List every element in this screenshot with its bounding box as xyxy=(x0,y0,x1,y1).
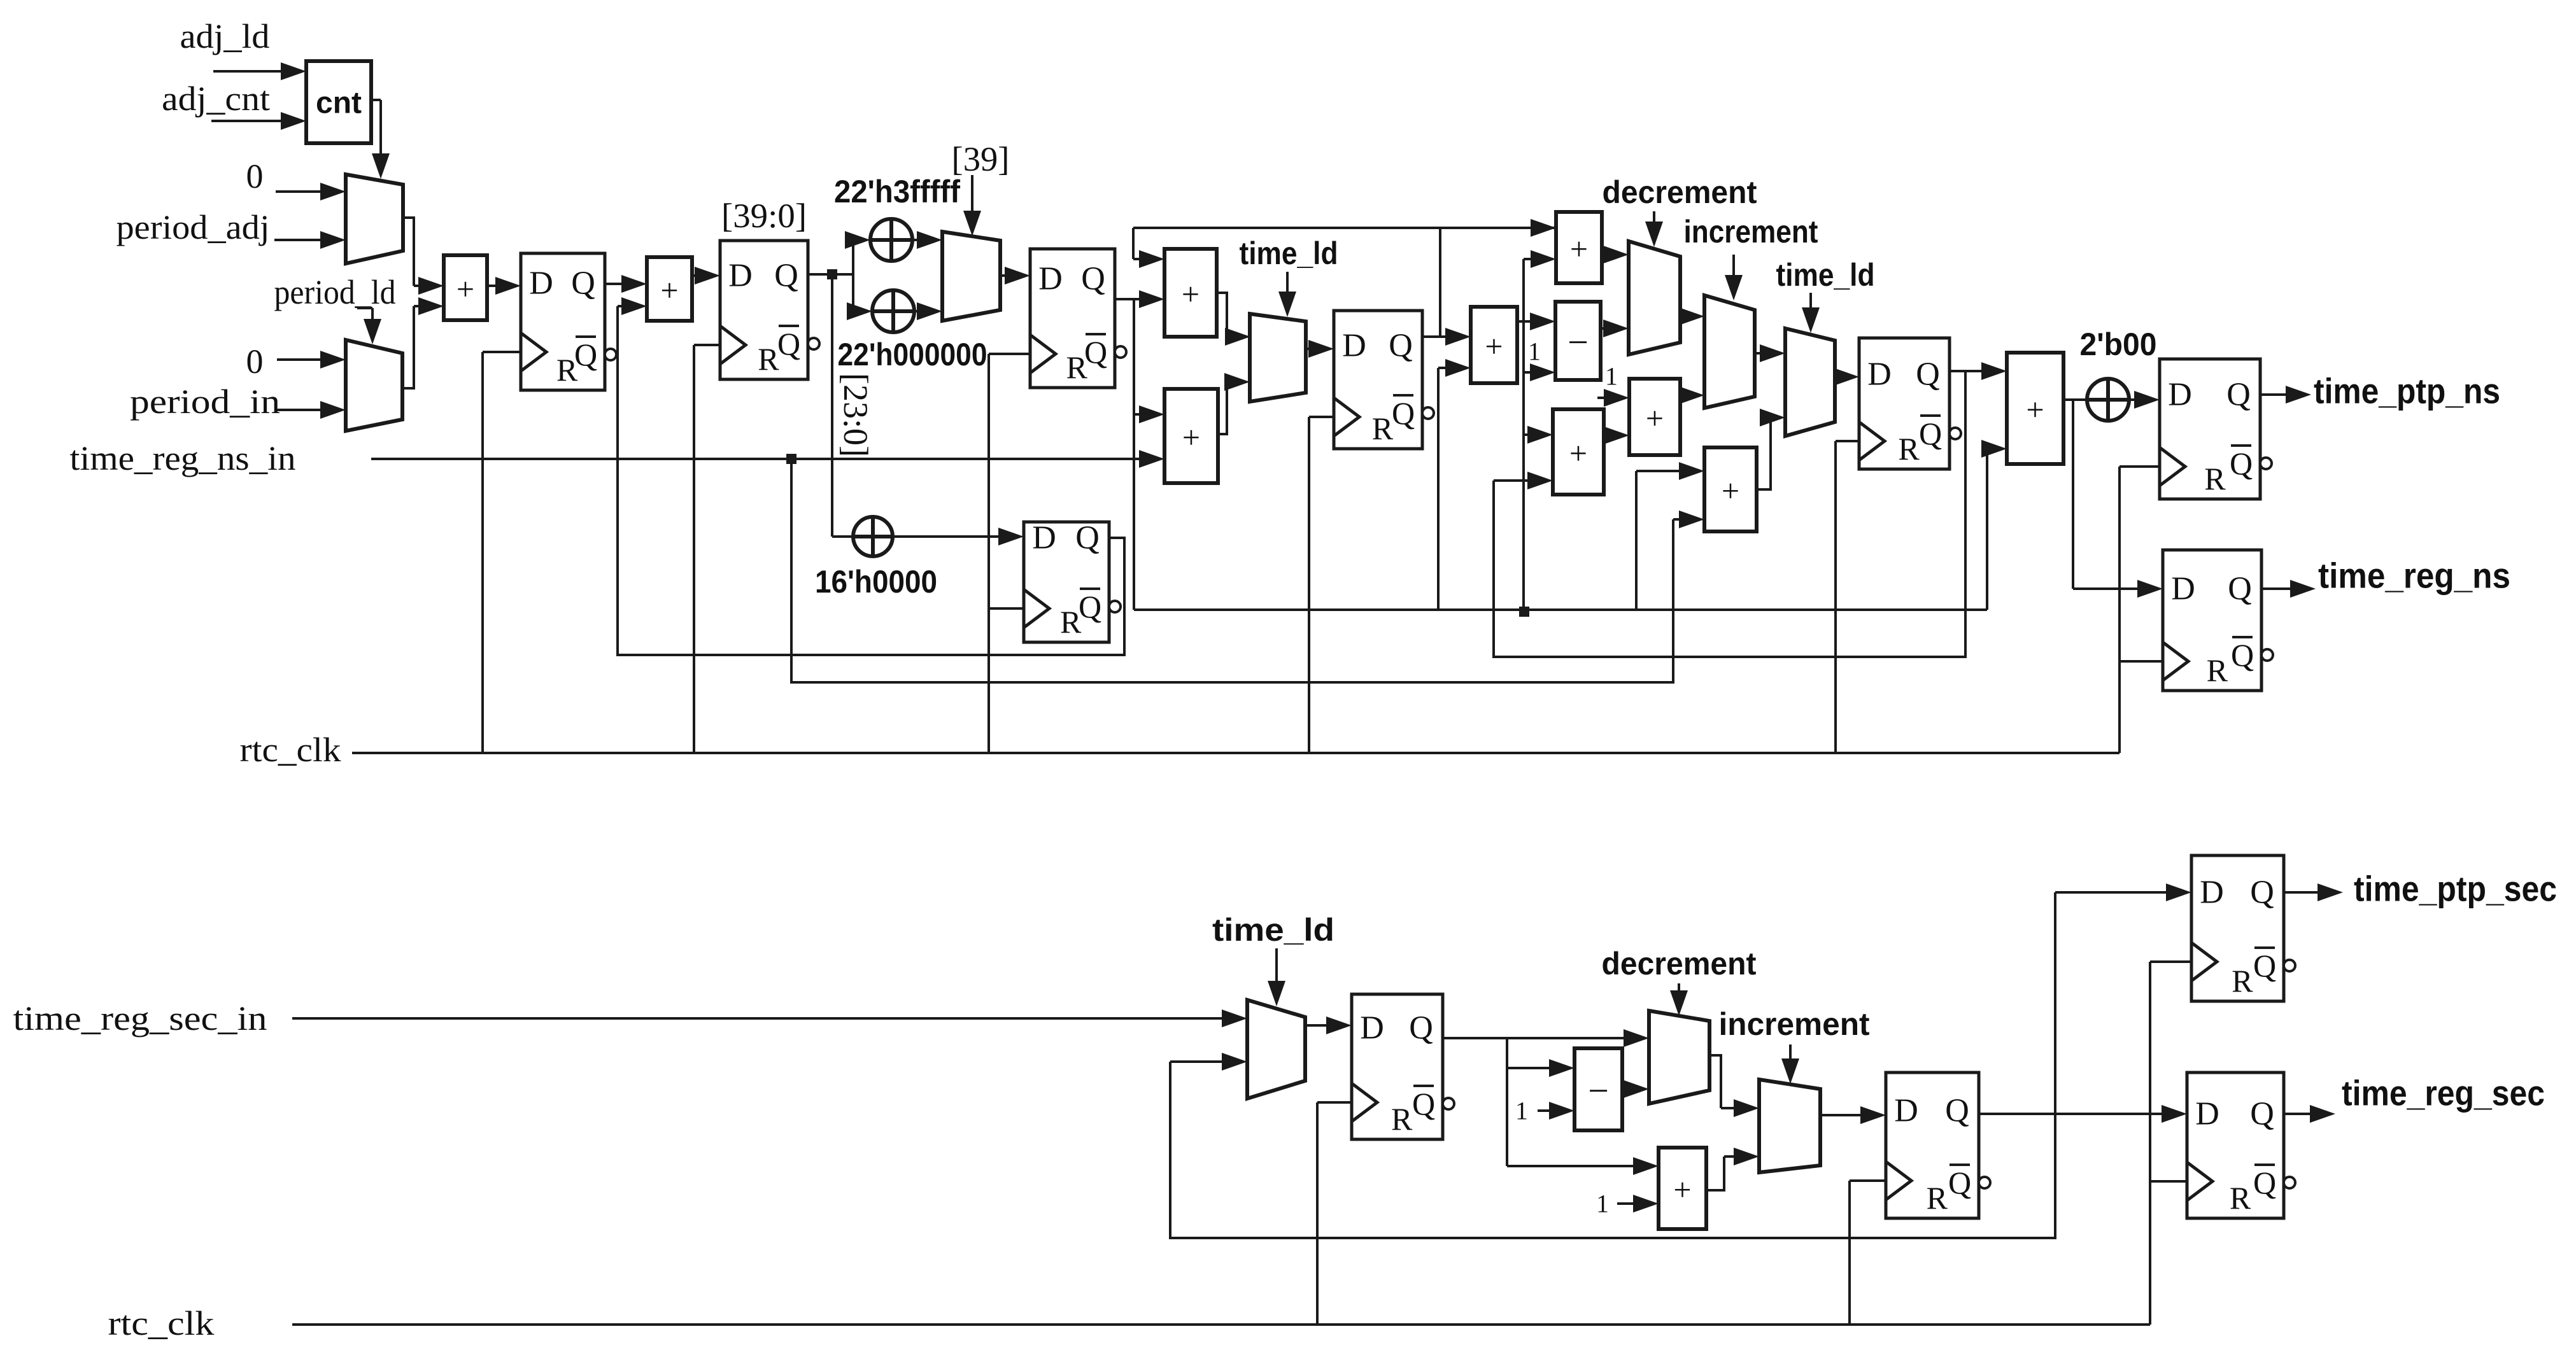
svg-text:Q: Q xyxy=(2231,637,2254,673)
wire mux M2 output to adder A1 xyxy=(402,306,414,388)
wire adj_ld into cnt xyxy=(213,70,286,73)
svg-text:Q: Q xyxy=(1081,261,1105,297)
svg-text:time_reg_sec_in: time_reg_sec_in xyxy=(13,999,267,1037)
svg-text:D: D xyxy=(1867,356,1892,393)
svg-text:D: D xyxy=(529,265,553,302)
svg-text:Q: Q xyxy=(1079,589,1101,624)
wire DFF3 Q net to adder A9 xyxy=(1635,471,1638,610)
svg-text:+: + xyxy=(1673,1172,1691,1207)
wire cnt output to mux M1 select xyxy=(371,99,381,101)
wire DFF3 Q fanout xyxy=(1115,298,1134,300)
wire DFF_S3 Q output xyxy=(2284,891,2323,894)
mux M6 (increment select) xyxy=(1704,295,1755,408)
svg-text:R: R xyxy=(2232,963,2253,999)
svg-text:Q: Q xyxy=(1948,1165,1971,1200)
wire XOR X1 to mux M3 xyxy=(912,239,922,241)
mux M7 (time_ld select) xyxy=(1785,328,1835,436)
wire constant 1 to adder A7 xyxy=(1597,397,1609,399)
svg-text:Q: Q xyxy=(2253,948,2276,983)
wire DFF7 Q output xyxy=(2260,393,2291,396)
wire period_ld to mux M2 select xyxy=(357,307,372,309)
wire adder A10 out to DFF8 D xyxy=(2072,400,2074,589)
svg-text:+: + xyxy=(1182,276,1200,312)
svg-text:Q: Q xyxy=(1916,356,1940,393)
svg-text:adj_cnt: adj_cnt xyxy=(162,80,270,118)
svg-text:D: D xyxy=(1360,1010,1384,1046)
adder A3 xyxy=(1164,249,1217,337)
svg-text:R: R xyxy=(2207,652,2228,688)
wire time_reg_ns_in to adder A4 xyxy=(371,458,1144,460)
svg-text:rtc_clk: rtc_clk xyxy=(108,1304,215,1342)
svg-text:R: R xyxy=(2230,1180,2251,1216)
wire DFF5 Q to adder A5 and top line xyxy=(1422,335,1450,338)
flip-flop DFF4 (fraction register) xyxy=(1024,522,1109,642)
svg-text:D: D xyxy=(728,258,753,294)
svg-text:period_in: period_in xyxy=(130,383,280,421)
svg-text:D: D xyxy=(2195,1096,2219,1132)
svg-text:D: D xyxy=(2168,377,2192,413)
svg-text:time_ptp_sec: time_ptp_sec xyxy=(2354,869,2557,909)
XOR gate X2 xyxy=(872,290,914,332)
svg-text:Q: Q xyxy=(2226,377,2251,413)
svg-text:+: + xyxy=(456,271,474,307)
svg-text:time_ptp_ns: time_ptp_ns xyxy=(2314,371,2500,411)
wire time_ld to mux M7 select xyxy=(1809,293,1812,313)
flip-flop DFF5 (ns counter) xyxy=(1334,311,1422,449)
svg-text:time_ld: time_ld xyxy=(1776,257,1875,293)
svg-text:Q: Q xyxy=(571,265,595,302)
subtractor S2 xyxy=(1575,1048,1622,1130)
svg-text:R: R xyxy=(758,341,779,377)
flip-flop DFF2 (accumulator [39:0]) xyxy=(720,241,808,379)
wire DFF8 Q output xyxy=(2261,587,2295,590)
svg-text:+: + xyxy=(660,272,678,308)
svg-text:−: − xyxy=(1588,1070,1609,1111)
svg-text:R: R xyxy=(2204,461,2226,496)
flip-flop DFF6 (time_reg_ns counter) xyxy=(1859,338,1950,469)
wire XOR X4 to DFF4 D xyxy=(893,535,1003,538)
svg-text:+: + xyxy=(1646,400,1664,436)
wire time_reg_sec_in to mux M8 xyxy=(292,1017,1227,1020)
svg-text:Q: Q xyxy=(574,337,597,372)
wire time_ld to mux M4 select xyxy=(1286,272,1289,297)
svg-text:Q: Q xyxy=(2250,1096,2274,1132)
wire adder A6 to mux M5 xyxy=(1602,253,1608,256)
svg-text:+: + xyxy=(1182,419,1200,455)
XOR gate X5 xyxy=(2087,379,2129,421)
svg-text:D: D xyxy=(2200,875,2224,911)
flip-flop DFF_S1 (sec counter) xyxy=(1352,994,1443,1139)
wire mux M6 to mux M7 xyxy=(1755,352,1765,355)
wire XOR X2 to mux M3 xyxy=(914,310,922,313)
wire 0 into mux M2 xyxy=(277,358,325,361)
mux M9 (decrement select) xyxy=(1649,1011,1709,1104)
wire XOR X5 to DFF7 D xyxy=(2129,398,2139,401)
svg-text:Q: Q xyxy=(2253,1165,2276,1200)
wire decrement to mux M5 select xyxy=(1653,211,1655,227)
svg-text:0: 0 xyxy=(246,342,264,381)
wire DFF3 Q net vertical to A6/S1/A7 xyxy=(1522,259,1525,612)
wire period_in into mux M2 xyxy=(277,409,325,411)
mux M8 (time_ld select) xyxy=(1247,1000,1305,1099)
svg-text:1: 1 xyxy=(1596,1190,1609,1218)
svg-text:Q: Q xyxy=(2228,571,2252,607)
wire decrement to mux M9 select xyxy=(1678,983,1680,995)
mux M1 (period_adj select) xyxy=(346,174,403,264)
svg-text:Q: Q xyxy=(1919,416,1942,451)
wire 0 into mux M1 xyxy=(276,190,325,193)
wire rtc_clk distribution (seconds) xyxy=(292,1323,2150,1326)
mux M4 (time_ld select) xyxy=(1250,314,1306,402)
svg-text:period_adj: period_adj xyxy=(117,208,270,246)
adder A1 xyxy=(444,255,487,320)
mux M3 (bit 39 select) xyxy=(942,232,1000,321)
svg-text:R: R xyxy=(1372,411,1394,446)
svg-text:Q: Q xyxy=(1412,1086,1435,1121)
svg-text:2'b00: 2'b00 xyxy=(2080,327,2157,362)
wire mux M10 to DFF_S2 D xyxy=(1820,1114,1865,1116)
wire mux M5 to mux M6 xyxy=(1680,315,1684,318)
flip-flop DFF1 (period register) xyxy=(521,253,605,390)
svg-text:−: − xyxy=(1568,321,1589,363)
svg-text:R: R xyxy=(1927,1180,1948,1216)
svg-text:1: 1 xyxy=(1515,1097,1528,1125)
svg-text:D: D xyxy=(2171,571,2195,607)
wire adder A10 to XOR X5 xyxy=(2063,398,2087,401)
wire DFF5 Q feedback top line xyxy=(1133,227,1556,229)
svg-text:16'h0000: 16'h0000 xyxy=(815,564,937,600)
adder A9 xyxy=(1704,447,1757,531)
flip-flop DFF7 (time_ptp_ns output) xyxy=(2160,359,2260,499)
wire time_reg_ns_in branch to adder A8 xyxy=(791,459,1673,682)
wire rtc_clk to DFF3 clock and DFF4 clock xyxy=(989,353,1030,355)
wire adder A1 to DFF1 D xyxy=(487,285,500,287)
wire rtc_clk to DFF1 clock xyxy=(483,351,521,353)
svg-text:time_reg_ns: time_reg_ns xyxy=(2318,556,2510,596)
svg-text:adj_ld: adj_ld xyxy=(180,17,270,55)
flip-flop DFF_S2 (sec register) xyxy=(1886,1072,1979,1218)
svg-text:Q: Q xyxy=(1084,334,1107,370)
adder A10 xyxy=(2007,353,2063,464)
svg-text:time_reg_ns_in: time_reg_ns_in xyxy=(70,439,296,477)
wire rtc_clk to DFF_S2 clock xyxy=(1850,1179,1886,1182)
counter block cnt xyxy=(306,61,371,143)
flip-flop DFF_S3 (time_ptp_sec output) xyxy=(2191,855,2284,1001)
svg-text:time_ld: time_ld xyxy=(1240,236,1338,271)
svg-text:decrement: decrement xyxy=(1602,946,1757,981)
junction time_reg_ns_in branch xyxy=(786,454,796,464)
adder A11 (+1) xyxy=(1659,1148,1706,1229)
svg-text:[39]: [39] xyxy=(952,140,1010,178)
wire adder A5 to subtractor S1 xyxy=(1517,320,1535,323)
adder A4 xyxy=(1164,389,1218,483)
svg-text:0: 0 xyxy=(246,157,264,195)
mux M10 (increment select) xyxy=(1759,1079,1820,1172)
svg-text:D: D xyxy=(1032,520,1056,556)
svg-text:+: + xyxy=(1569,435,1587,471)
wire adder A7 to mux M6 xyxy=(1680,394,1684,397)
adder A6 (top) xyxy=(1556,212,1602,283)
wire increment to mux M10 select xyxy=(1789,1044,1792,1064)
wire [39] to mux M3 select xyxy=(971,175,973,216)
svg-text:D: D xyxy=(1894,1093,1918,1129)
svg-text:Q: Q xyxy=(777,326,800,362)
wire rtc_clk to DFF2 clock xyxy=(694,344,720,346)
wire rtc_clk to DFF_S1 clock xyxy=(1317,1101,1352,1104)
junction DFF3 Q net xyxy=(1519,607,1529,617)
adder A2 (accumulator add) xyxy=(647,257,692,321)
wire mux M3 to DFF3 D xyxy=(1000,274,1010,277)
svg-text:+: + xyxy=(1722,473,1739,509)
adder A8 lower xyxy=(1553,409,1604,495)
flip-flop DFF_S4 (time_reg_sec output) xyxy=(2187,1072,2284,1218)
svg-text:decrement: decrement xyxy=(1603,174,1757,210)
svg-text:Q: Q xyxy=(2250,875,2274,911)
wire DFF3 Q net to adder A5 input 2 xyxy=(1437,368,1440,610)
wire rtc_clk to DFF6 clock xyxy=(1836,440,1859,442)
wire adder A2 to DFF2 D xyxy=(692,274,700,277)
wire adder A3 to mux M4 xyxy=(1217,293,1227,337)
svg-text:R: R xyxy=(1898,431,1920,467)
svg-text:D: D xyxy=(1342,328,1366,364)
svg-text:Q: Q xyxy=(1409,1010,1433,1046)
wire adder A8 to adder A7 xyxy=(1604,434,1609,437)
svg-text:Q: Q xyxy=(1075,520,1100,556)
wire DFF4 Q feedback to adder A2 xyxy=(618,306,1124,655)
subtractor S1 xyxy=(1555,302,1601,380)
wire rtc_clk distribution xyxy=(352,752,2120,754)
wire DFF_S2 Q to DFF_S3 D xyxy=(2054,892,2056,1114)
flip-flop DFF3 (ns accumulator) xyxy=(1030,249,1115,388)
svg-text:increment: increment xyxy=(1684,214,1818,250)
wire DFF_S1 Q fanout xyxy=(1443,1037,1629,1039)
wire subtractor S1 to mux M5 xyxy=(1601,327,1608,330)
wire adder A4 to mux M4 xyxy=(1218,382,1227,434)
svg-text:1: 1 xyxy=(1605,362,1618,391)
svg-text:period_ld: period_ld xyxy=(274,273,396,311)
wire increment to mux M6 select xyxy=(1732,255,1735,280)
wire rtc_clk to DFF5 clock xyxy=(1309,416,1334,418)
svg-text:+: + xyxy=(1485,328,1503,364)
mux M2 (period_in select) xyxy=(346,340,402,431)
svg-text:R: R xyxy=(1391,1101,1413,1137)
wire mux M7 to DFF6 D xyxy=(1835,376,1839,378)
svg-text:time_ld: time_ld xyxy=(1212,912,1334,948)
wire mux M8 to DFF_S1 D xyxy=(1305,1024,1331,1027)
wire DFF6 Q to adder A10 xyxy=(1950,370,1986,372)
svg-text:cnt: cnt xyxy=(316,87,362,120)
wire DFF1 Q to adder A2 xyxy=(605,283,626,285)
svg-text:1: 1 xyxy=(1528,337,1541,366)
wire time_ld to mux M8 select xyxy=(1275,948,1278,986)
junction DFF2 Q / [23:0] tap xyxy=(827,269,837,279)
svg-text:[39:0]: [39:0] xyxy=(721,197,807,235)
svg-text:Q: Q xyxy=(1392,395,1415,431)
svg-text:[23:0]: [23:0] xyxy=(837,373,875,457)
wire mux M9 to mux M10 xyxy=(1709,1055,1721,1108)
svg-text:22'h3fffff: 22'h3fffff xyxy=(834,174,960,209)
wire mux M4 to DFF5 D xyxy=(1306,348,1313,350)
XOR gate X4 xyxy=(853,517,893,556)
svg-text:Q: Q xyxy=(2230,446,2253,481)
svg-text:+: + xyxy=(2026,392,2044,428)
wire period_adj into mux M1 xyxy=(274,239,325,241)
wire DFF2 Q fanout to XOR gates xyxy=(808,273,853,276)
wire [23:0] tap down to XOR X4 xyxy=(831,274,833,537)
XOR gate X1 xyxy=(870,219,912,261)
mux M5 (decrement select) xyxy=(1629,241,1680,355)
wire adder A11 to mux M10 xyxy=(1706,1157,1724,1190)
adder A7 (+1) xyxy=(1629,379,1680,455)
svg-text:Q: Q xyxy=(774,258,798,294)
svg-text:Q: Q xyxy=(1389,328,1413,364)
wire subtractor S2 to mux M9 xyxy=(1622,1088,1629,1090)
svg-text:Q: Q xyxy=(1945,1093,1969,1129)
adder A5 xyxy=(1471,307,1517,383)
svg-text:time_reg_sec: time_reg_sec xyxy=(2342,1073,2545,1113)
flip-flop DFF8 (time_reg_ns output) xyxy=(2163,550,2261,691)
wire adj_cnt into cnt xyxy=(211,120,286,122)
wire DFF_S2 Q to DFF_S4 D xyxy=(1979,1113,2167,1115)
wire DFF_S2 Q feedback to mux M8 xyxy=(1170,1062,2055,1238)
wire DFF_S4 Q output xyxy=(2284,1113,2315,1115)
svg-text:D: D xyxy=(1038,261,1063,297)
svg-text:22'h000000: 22'h000000 xyxy=(838,337,987,372)
svg-text:increment: increment xyxy=(1719,1006,1870,1042)
wire DFF6 Q feedback to adder A8 xyxy=(1494,371,1965,657)
svg-text:+: + xyxy=(1570,231,1588,267)
svg-text:rtc_clk: rtc_clk xyxy=(240,731,341,769)
wire constant 1 to subtractor S2 xyxy=(1538,1109,1554,1112)
wire adder A9 to mux M7 xyxy=(1757,418,1771,489)
wire constant 1 to adder A11 xyxy=(1617,1202,1638,1205)
wire mux M1 output to adder A1 xyxy=(403,218,414,286)
